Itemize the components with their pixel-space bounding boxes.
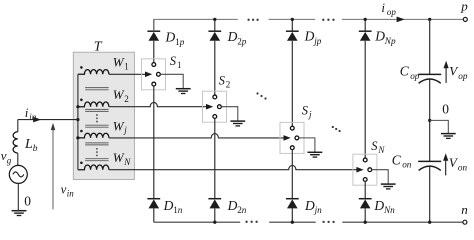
node n terminal bbox=[463, 220, 467, 224]
transformer ellipsis dots Wj-WN bbox=[96, 148, 98, 156]
svg-text:T: T bbox=[94, 40, 103, 55]
svg-text:b: b bbox=[33, 144, 38, 154]
wire bottom rail segment 3 bbox=[342, 221, 463, 223]
node 0 junction bbox=[428, 119, 431, 122]
diode DNp bbox=[359, 19, 372, 158]
switch Sj contacts bbox=[290, 126, 298, 149]
inductor Lb bbox=[13, 132, 18, 153]
svg-text:0: 0 bbox=[442, 102, 449, 117]
transformer core bars above WN bbox=[85, 159, 108, 161]
svg-text:W: W bbox=[113, 87, 125, 102]
arrow v_in measurement bbox=[51, 123, 56, 209]
svg-text:D: D bbox=[373, 198, 384, 213]
wire bottom rail segment 1 bbox=[154, 221, 240, 223]
svg-text:on: on bbox=[458, 162, 468, 172]
diagonal ellipsis between S2 and Sj bbox=[256, 92, 266, 99]
winding Wj polarity dot bbox=[80, 130, 83, 133]
arrow i_in on input wire bbox=[33, 117, 41, 123]
svg-text:j: j bbox=[123, 125, 127, 135]
diode D2n bbox=[208, 199, 221, 223]
svg-text:on: on bbox=[402, 160, 412, 170]
ac source vg bbox=[9, 165, 27, 183]
wire top rail segment 2 bbox=[269, 18, 316, 20]
switch S2 box bbox=[203, 91, 227, 122]
svg-text:S: S bbox=[170, 54, 177, 68]
switch S1 contacts bbox=[152, 63, 160, 86]
transformer core bars W1-W2 bbox=[85, 88, 108, 90]
switch S1 box bbox=[142, 59, 166, 90]
wire Wj to Sj (hop over S2 line) bbox=[109, 134, 285, 138]
wire 0 node to ground bbox=[430, 120, 449, 133]
svg-text:0: 0 bbox=[24, 194, 31, 209]
svg-text:2: 2 bbox=[124, 94, 129, 104]
node capacitor branch top junction bbox=[428, 18, 431, 21]
node bottom rail junction col j bbox=[291, 221, 294, 224]
ground of Sj bbox=[308, 152, 323, 157]
switch SN input arrowhead bbox=[356, 167, 363, 173]
bottom rail ellipsis right bbox=[322, 221, 334, 223]
svg-text:S: S bbox=[302, 103, 309, 117]
transformer core bars below W2 bbox=[85, 109, 108, 111]
wire Sj to Djn bbox=[291, 150, 293, 199]
switch S2 input arrowhead bbox=[206, 104, 213, 110]
ground main (input) bbox=[12, 211, 27, 216]
svg-text:op: op bbox=[458, 71, 468, 81]
capacitor Con bbox=[418, 161, 441, 170]
winding WN bbox=[78, 165, 109, 170]
svg-text:D: D bbox=[304, 29, 315, 44]
svg-text:in: in bbox=[67, 188, 75, 198]
wire bottom rail segment 2 bbox=[269, 221, 316, 223]
diode D2p bbox=[208, 19, 221, 95]
node bottom rail junction col 2 bbox=[213, 221, 216, 224]
svg-text:n: n bbox=[461, 202, 468, 217]
svg-text:W: W bbox=[113, 55, 125, 70]
svg-text:W: W bbox=[113, 150, 125, 165]
switch SN contacts bbox=[363, 158, 371, 181]
node p terminal bbox=[463, 17, 467, 21]
svg-text:2p: 2p bbox=[237, 37, 247, 47]
svg-text:j: j bbox=[308, 109, 312, 119]
node bottom rail junction col N bbox=[364, 221, 367, 224]
wire W2 to S2 (hop over S1 line) bbox=[109, 102, 208, 106]
ground of SN bbox=[381, 184, 396, 189]
wire input to transformer bbox=[18, 119, 78, 121]
wire S2 to D2n bbox=[214, 118, 216, 198]
arrow Vop bbox=[444, 61, 449, 83]
node top rail junction col 2 bbox=[213, 18, 216, 21]
svg-text:jn: jn bbox=[314, 205, 323, 215]
diagonal ellipsis between Sj and SN bbox=[332, 126, 341, 132]
svg-text:op: op bbox=[387, 7, 397, 17]
svg-text:D: D bbox=[227, 198, 238, 213]
svg-text:D: D bbox=[374, 29, 385, 44]
node bottom rail cap junction bbox=[428, 221, 431, 224]
svg-text:W: W bbox=[113, 118, 125, 133]
node bus-Wj junction bbox=[76, 136, 79, 139]
diode Djp bbox=[286, 19, 299, 126]
svg-text:jp: jp bbox=[313, 36, 322, 46]
winding W2 bbox=[78, 102, 109, 107]
transformer core bars below Wj bbox=[85, 143, 108, 145]
wire top rail segment 3 bbox=[342, 18, 464, 20]
wire W1 to S1 bbox=[109, 73, 147, 75]
svg-text:C: C bbox=[392, 152, 402, 167]
wire input corner down to Lb bbox=[17, 120, 19, 132]
svg-text:D: D bbox=[304, 198, 315, 213]
svg-text:1: 1 bbox=[124, 61, 129, 71]
bottom rail ellipsis left bbox=[245, 221, 257, 223]
diode D1p bbox=[147, 19, 160, 62]
arrow Von bbox=[443, 153, 448, 175]
svg-text:C: C bbox=[400, 64, 410, 79]
svg-text:D: D bbox=[163, 198, 174, 213]
wire SN pole to ground bbox=[372, 170, 388, 184]
svg-text:N: N bbox=[123, 157, 131, 167]
switch Sj input arrowhead bbox=[284, 135, 291, 141]
wire Con to bottom rail bbox=[429, 166, 431, 222]
ground of S2 bbox=[230, 121, 245, 126]
svg-text:1n: 1n bbox=[173, 205, 183, 215]
winding W1 bbox=[78, 70, 109, 75]
ground of S1 bbox=[176, 89, 191, 94]
wire transformer left bus bbox=[77, 74, 79, 169]
wire top rail segment 1 bbox=[154, 19, 238, 31]
diode DNn bbox=[359, 199, 372, 223]
svg-text:op: op bbox=[410, 71, 420, 81]
winding WN polarity dot bbox=[80, 162, 83, 165]
svg-text:i: i bbox=[381, 0, 385, 15]
top rail ellipsis left bbox=[247, 19, 258, 21]
svg-text:p: p bbox=[460, 0, 468, 14]
transformer T shaded box bbox=[73, 52, 134, 179]
svg-text:L: L bbox=[24, 137, 33, 152]
svg-text:1p: 1p bbox=[175, 37, 185, 47]
wire top rail to Cop bbox=[429, 19, 431, 74]
switch S1 input arrowhead bbox=[145, 72, 152, 78]
diode D1n bbox=[147, 199, 160, 223]
switch SN box bbox=[353, 154, 377, 185]
node input junction on bus bbox=[76, 118, 79, 121]
svg-text:1: 1 bbox=[177, 60, 182, 70]
winding W2 polarity dot bbox=[80, 99, 83, 102]
diode Djn bbox=[286, 199, 299, 223]
svg-text:S: S bbox=[371, 139, 378, 153]
node top rail junction col j bbox=[291, 18, 294, 21]
transformer ellipsis dots W2-Wj bbox=[96, 114, 98, 123]
switch Sj box bbox=[280, 122, 304, 153]
top rail ellipsis right bbox=[322, 19, 335, 21]
switch S2 contacts bbox=[213, 95, 221, 118]
svg-text:D: D bbox=[227, 29, 238, 44]
capacitor Cop bbox=[418, 74, 441, 83]
svg-text:D: D bbox=[165, 30, 176, 45]
svg-text:Nn: Nn bbox=[383, 205, 395, 215]
node top rail junction col N bbox=[364, 18, 367, 21]
svg-text:v: v bbox=[61, 182, 67, 197]
wire S2 pole to ground bbox=[221, 107, 237, 121]
wire SN to DNn bbox=[364, 181, 366, 198]
svg-text:S: S bbox=[219, 74, 226, 88]
wire Lb to source bbox=[17, 153, 19, 165]
svg-text:2: 2 bbox=[226, 80, 231, 90]
winding W1 polarity dot bbox=[80, 66, 83, 69]
wire S1 to D1n bbox=[153, 86, 155, 199]
wire Cop to Con bbox=[429, 79, 431, 161]
transformer core bars above Wj bbox=[85, 125, 108, 127]
node bus-W2 junction bbox=[76, 105, 79, 108]
wire WN to SN (hop over Sj line) bbox=[109, 165, 358, 169]
wire Sj pole to ground bbox=[299, 138, 315, 152]
winding Wj bbox=[78, 133, 109, 138]
svg-text:g: g bbox=[7, 155, 12, 165]
wire source to ground bbox=[17, 183, 19, 210]
svg-text:i: i bbox=[25, 105, 29, 120]
svg-text:2n: 2n bbox=[237, 205, 247, 215]
arrow i_op on top rail bbox=[397, 17, 405, 23]
svg-text:Np: Np bbox=[384, 36, 396, 46]
ground at node 0 bbox=[441, 134, 456, 139]
svg-text:N: N bbox=[377, 145, 385, 155]
wire S1 pole to ground bbox=[160, 74, 183, 88]
